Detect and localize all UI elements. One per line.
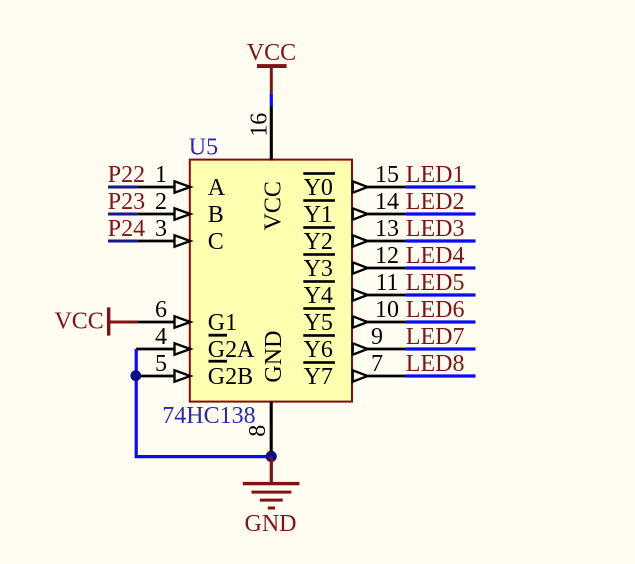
- pin 13 Y2: [353, 216, 406, 247]
- wire net LED7: [406, 347, 476, 350]
- overbar Y1: [303, 199, 335, 202]
- wire net P22: [108, 186, 137, 189]
- wire net LED6: [406, 320, 476, 323]
- svg-text:Y3: Y3: [304, 256, 333, 282]
- svg-text:B: B: [208, 202, 224, 228]
- svg-text:G2A: G2A: [208, 337, 255, 363]
- svg-text:LED3: LED3: [406, 216, 465, 242]
- wire VCC top blue segment: [270, 93, 273, 106]
- svg-text:Y4: Y4: [304, 283, 333, 309]
- svg-text:LED1: LED1: [406, 162, 465, 188]
- svg-text:G1: G1: [208, 310, 237, 336]
- wire net LED2: [406, 212, 476, 215]
- pin 8 GND bottom: [245, 402, 271, 456]
- svg-text:A: A: [208, 175, 226, 201]
- svg-text:4: 4: [155, 324, 167, 350]
- svg-text:10: 10: [375, 297, 399, 323]
- overbar Y0: [303, 172, 335, 175]
- svg-text:Y1: Y1: [304, 202, 333, 228]
- junction dot GND node: [266, 451, 277, 462]
- overbar Y5: [303, 307, 335, 310]
- svg-text:Y6: Y6: [304, 337, 333, 363]
- pin 3 C: [137, 216, 190, 247]
- pin 4 G2A: [136, 324, 190, 355]
- wire net LED1: [406, 185, 476, 188]
- wire G2A/G2B vertical: [135, 349, 138, 457]
- svg-text:16: 16: [247, 113, 273, 137]
- svg-text:C: C: [208, 229, 224, 255]
- overbar G2B: [209, 360, 228, 363]
- svg-text:Y2: Y2: [304, 229, 333, 255]
- ground GND symbol: [243, 456, 300, 537]
- svg-text:GND: GND: [261, 331, 287, 383]
- junction dot G2B: [130, 370, 141, 381]
- svg-text:LED4: LED4: [406, 243, 465, 269]
- pin 5 G2B: [136, 351, 190, 382]
- svg-text:13: 13: [375, 216, 399, 242]
- svg-text:1: 1: [155, 162, 167, 188]
- svg-text:7: 7: [371, 351, 383, 377]
- svg-text:P24: P24: [108, 216, 145, 242]
- svg-text:GND: GND: [245, 511, 297, 537]
- svg-text:LED6: LED6: [406, 297, 465, 323]
- wire net LED5: [406, 293, 476, 296]
- svg-text:11: 11: [375, 270, 398, 296]
- svg-text:74HC138: 74HC138: [162, 403, 255, 429]
- pin 15 Y0: [353, 162, 406, 193]
- svg-text:P22: P22: [108, 162, 145, 188]
- svg-text:U5: U5: [189, 134, 218, 160]
- pin 14 Y1: [353, 189, 406, 220]
- IC U5 (74HC138 decoder): [162, 134, 352, 429]
- svg-text:LED8: LED8: [406, 351, 465, 377]
- svg-text:Y5: Y5: [304, 310, 333, 336]
- svg-text:LED7: LED7: [406, 324, 465, 350]
- svg-text:2: 2: [155, 189, 167, 215]
- svg-text:VCC: VCC: [54, 309, 103, 335]
- svg-text:Y0: Y0: [304, 175, 333, 201]
- overbar Y3: [303, 253, 335, 256]
- svg-text:VCC: VCC: [261, 181, 287, 230]
- svg-text:12: 12: [375, 243, 399, 269]
- pin 10 Y5: [353, 297, 406, 328]
- pin 16 VCC top: [247, 107, 273, 161]
- overbar Y4: [303, 280, 335, 283]
- power port VCC left: [54, 307, 137, 335]
- svg-text:Y7: Y7: [304, 364, 333, 390]
- overbar Y7: [303, 361, 335, 364]
- overbar Y6: [303, 334, 335, 337]
- pin 1 A: [137, 162, 190, 193]
- svg-text:LED5: LED5: [406, 270, 465, 296]
- svg-text:6: 6: [155, 297, 167, 323]
- wire net P24: [108, 240, 137, 243]
- overbar Y2: [303, 226, 335, 229]
- wire net LED4: [406, 266, 476, 269]
- IC U5 74HC138 body: [190, 160, 352, 402]
- svg-text:15: 15: [375, 162, 399, 188]
- svg-text:8: 8: [245, 425, 271, 437]
- wire net LED3: [406, 239, 476, 242]
- svg-text:3: 3: [155, 216, 167, 242]
- pin 12 Y3: [353, 243, 406, 274]
- wire net LED8: [406, 374, 476, 377]
- svg-text:G2B: G2B: [208, 364, 253, 390]
- svg-text:LED2: LED2: [406, 189, 465, 215]
- power port VCC top: [247, 40, 296, 93]
- pin 2 B: [137, 189, 190, 220]
- wire net P23: [108, 213, 137, 216]
- overbar G2A: [209, 334, 228, 337]
- svg-text:9: 9: [371, 324, 383, 350]
- pin 7 Y7: [353, 351, 406, 382]
- pin 6 G1: [137, 297, 190, 328]
- svg-text:5: 5: [155, 351, 167, 377]
- pin 11 Y4: [353, 270, 406, 301]
- svg-text:14: 14: [375, 189, 399, 215]
- svg-text:VCC: VCC: [247, 40, 296, 66]
- svg-text:P23: P23: [108, 189, 145, 215]
- wire ground horizontal: [135, 455, 272, 458]
- pin 9 Y6: [353, 324, 406, 355]
